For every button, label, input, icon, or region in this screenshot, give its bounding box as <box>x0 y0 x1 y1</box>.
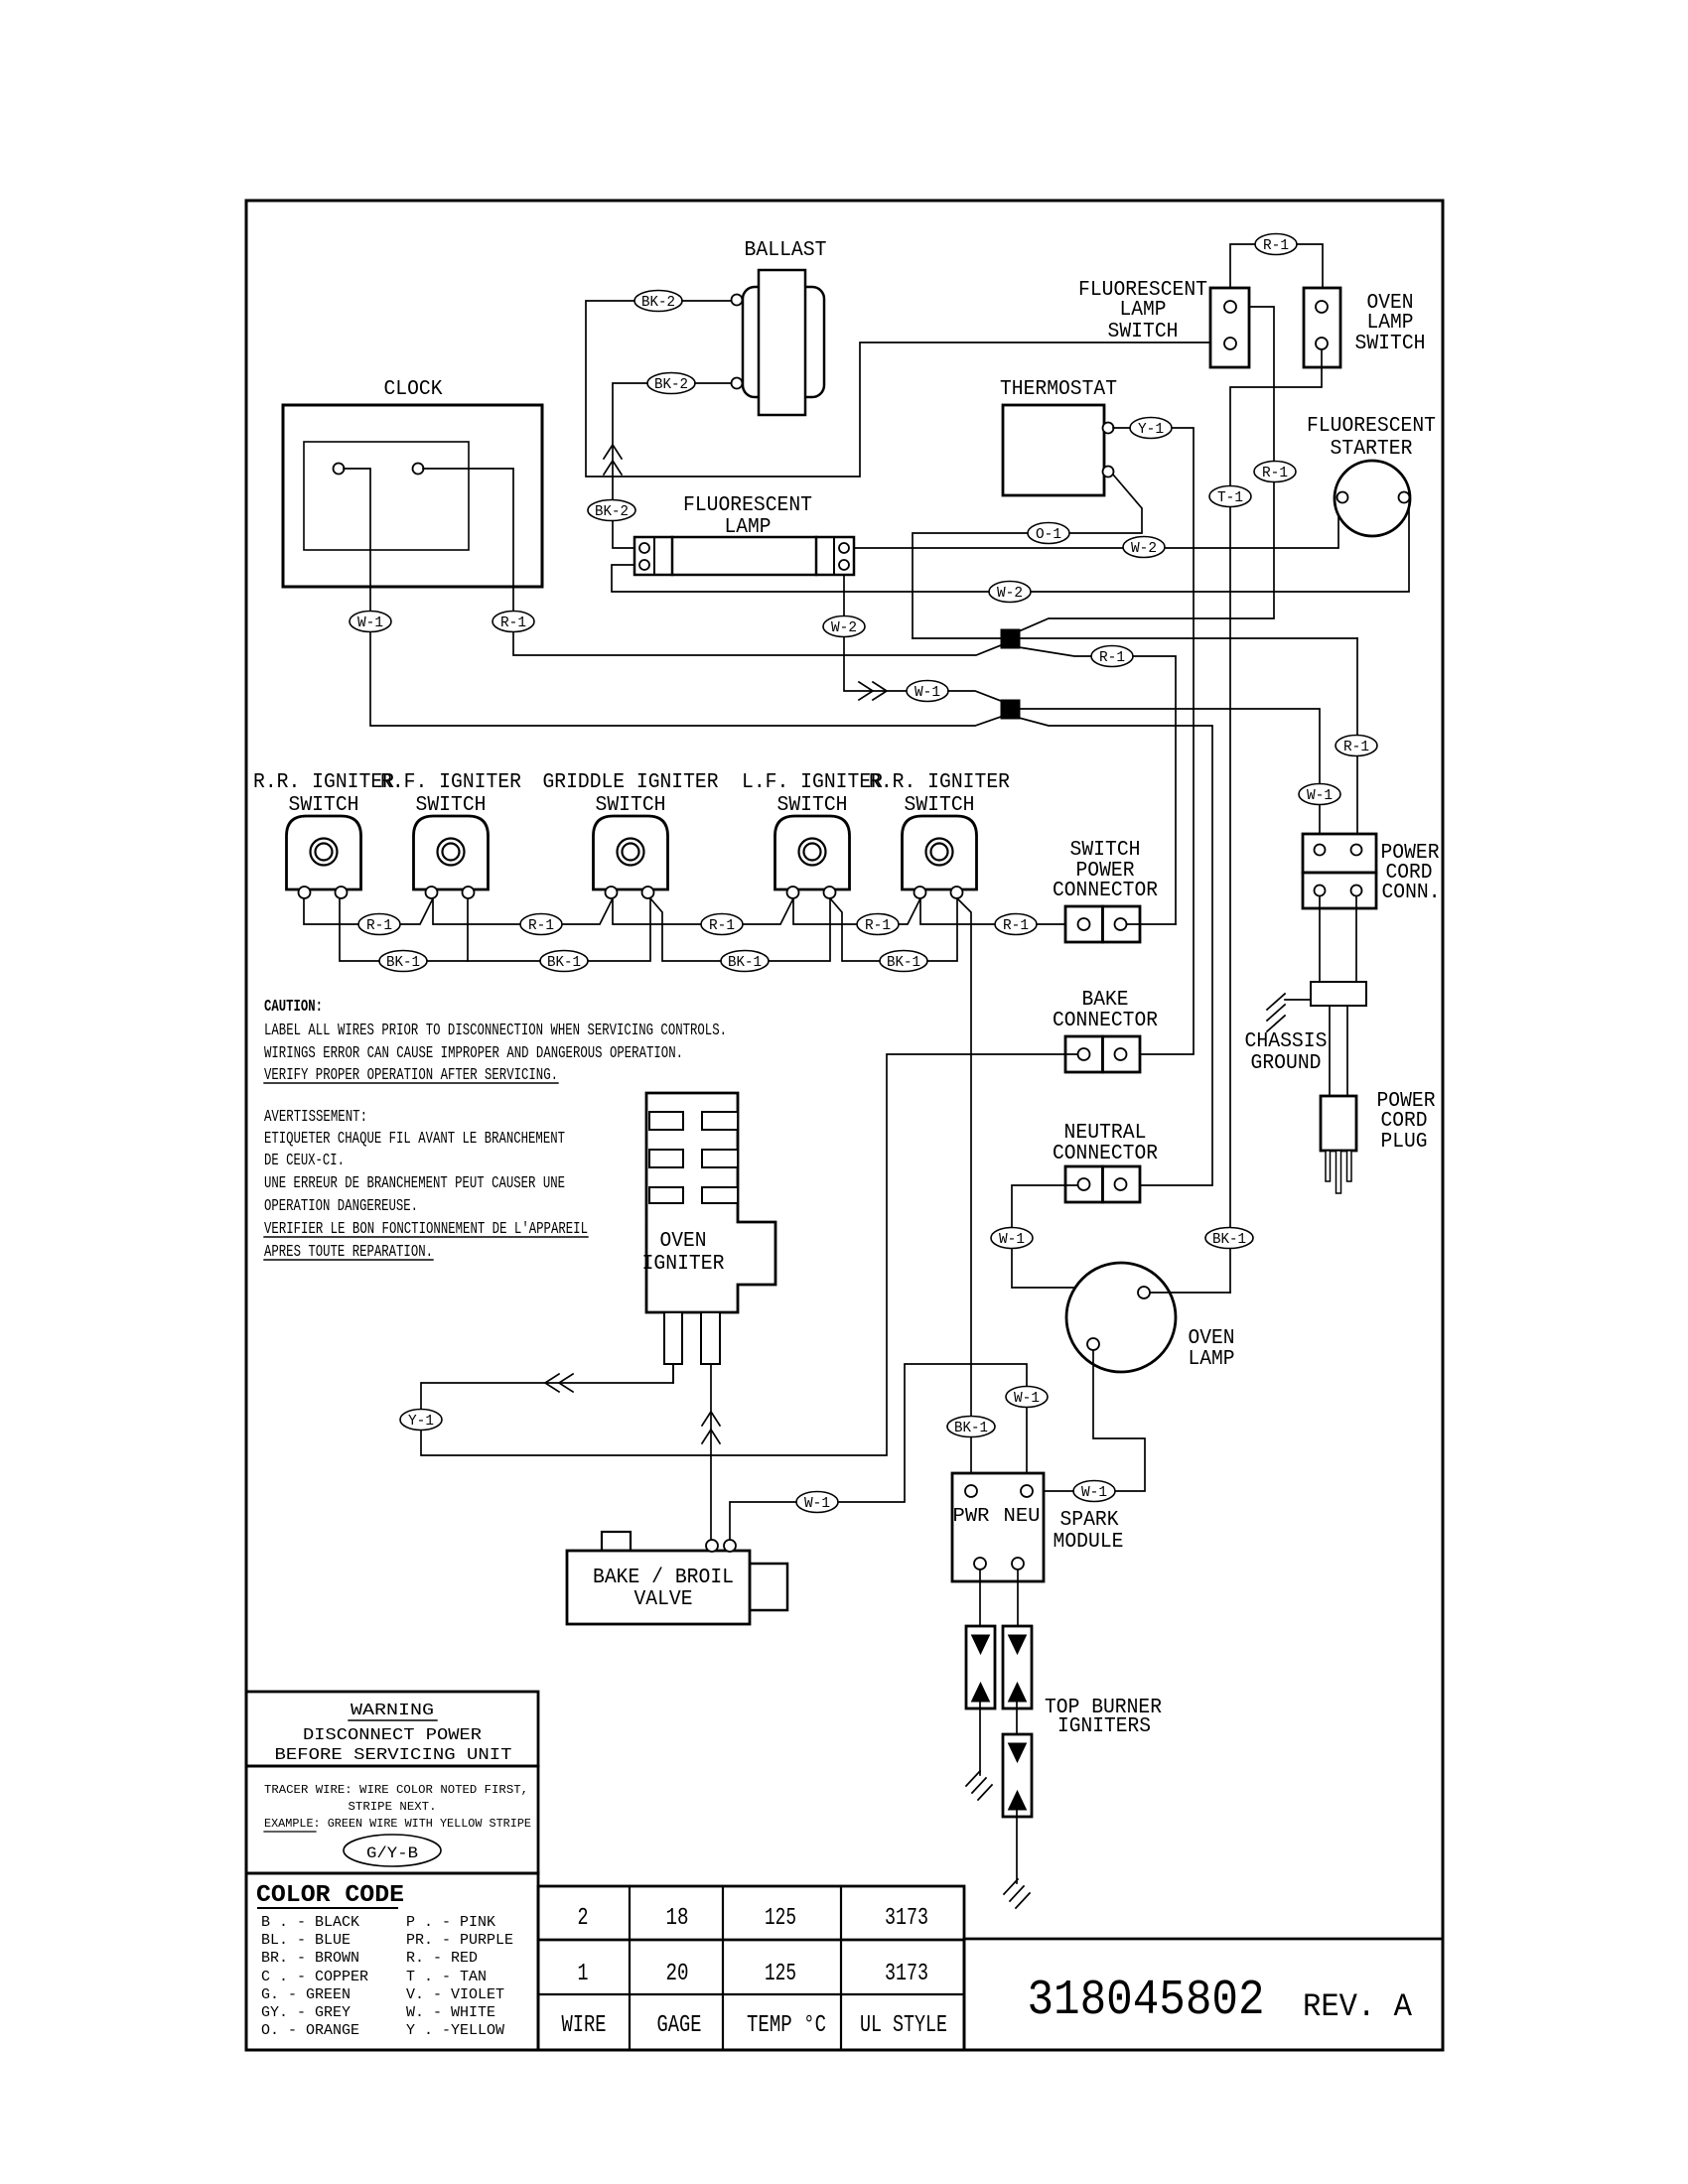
ground symbol igniter 1 <box>966 1771 980 1786</box>
label W-1 neutral drop <box>991 1228 1033 1249</box>
svg-text:R-1: R-1 <box>1099 649 1125 666</box>
spark module terminals <box>965 1485 977 1497</box>
svg-text:R-1: R-1 <box>500 614 526 631</box>
wire W-1 bus junction2 to power cord conn <box>1019 709 1320 850</box>
svg-text:R-1: R-1 <box>1262 465 1288 481</box>
svg-text:R-1: R-1 <box>1343 739 1369 755</box>
spark module body <box>952 1473 1044 1581</box>
wire BK-1 to spark module PWR <box>957 898 971 1485</box>
svg-text:BAKE / BROIL: BAKE / BROIL <box>593 1567 734 1589</box>
svg-text:W-1: W-1 <box>804 1495 830 1512</box>
svg-text:FLUORESCENT: FLUORESCENT <box>683 494 812 517</box>
svg-text:SWITCH: SWITCH <box>1108 321 1179 343</box>
oven lamp terminals <box>1138 1287 1150 1298</box>
power cord connector body <box>1303 834 1376 873</box>
svg-text:T . - TAN: T . - TAN <box>406 1969 487 1985</box>
svg-text:CONNECTOR: CONNECTOR <box>1053 880 1158 902</box>
bake connector body <box>1065 1036 1103 1072</box>
svg-text:SWITCH: SWITCH <box>416 794 487 817</box>
wire bake connector left to Y-1 run <box>421 1054 1077 1455</box>
svg-text:GY. - GREY: GY. - GREY <box>261 2004 351 2021</box>
ballast body <box>743 287 824 397</box>
svg-text:3173: 3173 <box>885 1905 928 1932</box>
label W-2 near starter <box>1123 537 1165 558</box>
svg-text:SWITCH: SWITCH <box>905 794 975 817</box>
label BK-1 spark drop <box>947 1417 995 1437</box>
wire spark PWR to igniter 1 <box>979 1570 981 1644</box>
arrow chevrons right on W-1 wire <box>859 682 873 700</box>
svg-text:SWITCH: SWITCH <box>596 794 666 817</box>
svg-text:Y-1: Y-1 <box>408 1413 434 1430</box>
wire lamp W-2 down to W-1 junction <box>844 570 907 691</box>
svg-text:WARNING: WARNING <box>351 1702 434 1720</box>
svg-text:R. - RED: R. - RED <box>406 1950 478 1967</box>
wire clock R-1 down <box>423 469 1001 655</box>
svg-text:R-1: R-1 <box>1263 237 1289 254</box>
igniter switch S5 body <box>903 816 977 889</box>
svg-text:W-1: W-1 <box>999 1231 1025 1248</box>
power cord connector terminals <box>1315 845 1326 856</box>
ballast terminal 1 <box>732 295 743 306</box>
warning box <box>246 1692 538 1766</box>
svg-text:PR. - PURPLE: PR. - PURPLE <box>406 1932 513 1949</box>
svg-text:DISCONNECT POWER: DISCONNECT POWER <box>303 1726 482 1745</box>
igniter switch S5 knob <box>926 839 953 866</box>
power cord block <box>1311 982 1366 1006</box>
label R-1 power cord drop <box>1336 736 1377 756</box>
wire oven igniter left prong stub <box>672 1364 674 1383</box>
igniter switch S2 knob <box>438 839 465 866</box>
svg-text:UNE ERREUR DE BRANCHEMENT PEUT: UNE ERREUR DE BRANCHEMENT PEUT CAUSER UN… <box>264 1174 565 1193</box>
igniter switch S4 terminals <box>787 887 799 898</box>
wire lamp top-right to starter <box>849 502 1338 548</box>
igniter switch S1 body <box>287 816 361 889</box>
svg-text:V. - VIOLET: V. - VIOLET <box>406 1986 504 2003</box>
tracer wire box <box>246 1766 538 1873</box>
neutral connector body <box>1065 1166 1103 1202</box>
wire oven lamp bottom to spark NEU <box>1093 1350 1145 1491</box>
svg-text:W-1: W-1 <box>1307 787 1333 804</box>
fluorescent lamp switch body <box>1210 288 1249 367</box>
chassis ground symbol <box>1285 999 1311 1001</box>
label Y-1 thermostat <box>1130 418 1172 439</box>
svg-text:WIRINGS ERROR CAN CAUSE IMPROP: WIRINGS ERROR CAN CAUSE IMPROPER AND DAN… <box>264 1044 683 1063</box>
wire BK-2 upper loop <box>586 301 1223 477</box>
oven igniter body <box>646 1093 775 1312</box>
wire spark NEU to igniter 2 <box>1017 1570 1019 1644</box>
wire BK-1 chain <box>340 898 468 961</box>
label R-1 span1 <box>358 914 400 935</box>
svg-text:W-1: W-1 <box>1081 1484 1107 1501</box>
svg-text:W-2: W-2 <box>831 619 857 636</box>
starter terminal left <box>1337 492 1348 503</box>
svg-text:LAMP: LAMP <box>1367 312 1414 335</box>
thermostat terminals <box>1103 423 1114 434</box>
svg-text:IGNITERS: IGNITERS <box>1057 1715 1151 1738</box>
svg-text:STRIPE NEXT.: STRIPE NEXT. <box>349 1800 437 1814</box>
svg-text:2: 2 <box>578 1905 589 1932</box>
label BK-1 on lamp drop <box>1205 1228 1253 1249</box>
svg-text:R.R. IGNITER: R.R. IGNITER <box>253 771 394 794</box>
svg-text:W. - WHITE: W. - WHITE <box>406 2004 495 2021</box>
label W-1 valve <box>796 1492 838 1513</box>
clock pin 2 <box>413 464 424 475</box>
svg-text:GRIDDLE IGNITER: GRIDDLE IGNITER <box>543 771 719 794</box>
svg-text:R.R. IGNITER: R.R. IGNITER <box>869 771 1010 794</box>
label W-1 power cord drop <box>1299 784 1340 805</box>
ground symbol igniter 3 <box>1004 1879 1018 1894</box>
svg-text:Y-1: Y-1 <box>1138 421 1164 438</box>
svg-text:BK-1: BK-1 <box>1212 1231 1246 1248</box>
igniter switch S3 body <box>594 816 668 889</box>
label R-1 arc <box>1255 234 1297 255</box>
svg-text:R-1: R-1 <box>865 917 891 934</box>
wire R-1 chain <box>304 898 1077 924</box>
svg-text:BK-1: BK-1 <box>728 954 762 971</box>
igniter switch S2 body <box>414 816 489 889</box>
svg-text:BL. - BLUE: BL. - BLUE <box>261 1932 351 1949</box>
svg-text:BALLAST: BALLAST <box>745 239 827 262</box>
igniter switch S3 knob <box>618 839 644 866</box>
color code box <box>246 1873 538 2050</box>
label R-1 on fl-switch drop <box>1254 462 1296 482</box>
svg-text:C . - COPPER: C . - COPPER <box>261 1969 368 1985</box>
svg-text:SWITCH: SWITCH <box>289 794 359 817</box>
svg-text:AVERTISSEMENT:: AVERTISSEMENT: <box>264 1108 367 1127</box>
svg-text:THERMOSTAT: THERMOSTAT <box>1000 378 1117 401</box>
svg-text:W-2: W-2 <box>1131 540 1157 557</box>
wire oven-lamp-switch T-1 long drop <box>1230 349 1322 1293</box>
svg-text:B . - BLACK: B . - BLACK <box>261 1914 359 1931</box>
top burner igniter 3 <box>1003 1734 1032 1817</box>
wire junction1 SE to switch power connector <box>1019 647 1091 656</box>
thermostat body <box>1003 405 1104 495</box>
svg-text:GAGE: GAGE <box>657 2012 702 2039</box>
svg-text:W-1: W-1 <box>357 614 383 631</box>
wire oven lamp top terminal to T-1 riser <box>1150 1292 1230 1294</box>
svg-text:DE CEUX-CI.: DE CEUX-CI. <box>264 1152 345 1170</box>
label R-1 span3 <box>701 914 743 935</box>
svg-text:R.F. IGNITER: R.F. IGNITER <box>380 771 521 794</box>
svg-text:R-1: R-1 <box>366 917 392 934</box>
oven lamp switch terminals <box>1316 301 1328 313</box>
svg-text:CONNECTOR: CONNECTOR <box>1053 1010 1158 1032</box>
svg-text:OVEN: OVEN <box>1189 1327 1235 1350</box>
svg-text:L.F. IGNITER: L.F. IGNITER <box>742 771 883 794</box>
valve terminals <box>706 1540 718 1552</box>
svg-text:BK-1: BK-1 <box>386 954 420 971</box>
label BK-2 mid <box>588 500 635 521</box>
svg-text:GROUND: GROUND <box>1251 1052 1322 1075</box>
wire BK-2 lower stub <box>695 382 732 384</box>
igniter switch S4 body <box>775 816 850 889</box>
wire BK-2 upper stub <box>682 300 732 302</box>
svg-text:P . - PINK: P . - PINK <box>406 1914 495 1931</box>
label W-2 below lamp <box>823 616 865 637</box>
svg-text:OPERATION DANGEREUSE.: OPERATION DANGEREUSE. <box>264 1197 418 1216</box>
oven lamp switch body <box>1304 288 1340 367</box>
label R-1 span2 <box>520 914 562 935</box>
svg-text:IGNITER: IGNITER <box>642 1253 725 1276</box>
svg-text:O-1: O-1 <box>1036 526 1061 543</box>
bake broil valve body <box>602 1532 631 1551</box>
label R-1 junction SE <box>1091 646 1133 667</box>
node junction square 2 <box>1001 700 1020 719</box>
wire valve right terminal W-1 run <box>730 1364 1027 1540</box>
wire power cord conn to plug block <box>1319 896 1321 982</box>
label R-1 clock <box>492 612 534 632</box>
igniter switch S5 terminals <box>914 887 926 898</box>
svg-text:NEU: NEU <box>1004 1505 1041 1527</box>
svg-text:EXAMPLE: GREEN WIRE WITH YELLO: EXAMPLE: GREEN WIRE WITH YELLOW STRIPE <box>264 1817 531 1831</box>
wire junction2 SE to neutral connector <box>1019 718 1212 1185</box>
wire block to plug <box>1329 1006 1331 1096</box>
svg-text:1: 1 <box>578 1961 589 1987</box>
svg-text:BK-2: BK-2 <box>595 503 629 520</box>
svg-text:APRES TOUTE REPARATION.: APRES TOUTE REPARATION. <box>264 1243 433 1262</box>
svg-text:125: 125 <box>765 1905 796 1932</box>
svg-text:UL STYLE: UL STYLE <box>860 2012 947 2039</box>
wire W-1 into junction <box>948 691 1001 701</box>
svg-text:LAMP: LAMP <box>725 516 772 539</box>
svg-text:BK-1: BK-1 <box>887 954 920 971</box>
switch power connector body <box>1065 906 1103 942</box>
svg-text:STARTER: STARTER <box>1331 438 1413 461</box>
svg-text:W-2: W-2 <box>997 585 1023 602</box>
svg-text:FLUORESCENT: FLUORESCENT <box>1307 415 1436 438</box>
oven igniter slots <box>649 1112 683 1130</box>
svg-text:SWITCH: SWITCH <box>1070 839 1141 862</box>
svg-text:BK-1: BK-1 <box>547 954 581 971</box>
svg-text:LAMP: LAMP <box>1189 1348 1235 1371</box>
wire BK-2 lower to lamp <box>613 383 650 548</box>
wire switch power connector to R-1 riser <box>1127 923 1176 925</box>
svg-text:125: 125 <box>765 1961 796 1987</box>
svg-text:NEUTRAL: NEUTRAL <box>1064 1122 1147 1145</box>
oven igniter prongs <box>664 1312 682 1364</box>
label BK-1 span2 <box>540 951 588 972</box>
igniter switch S2 terminals <box>426 887 438 898</box>
svg-text:T-1: T-1 <box>1217 489 1243 506</box>
svg-text:CORD: CORD <box>1381 1110 1428 1133</box>
wire R-1 arc between lamp switches <box>1230 244 1323 288</box>
arrow chevrons on BK-2 wire <box>604 445 622 459</box>
igniter switch S4 knob <box>799 839 826 866</box>
node junction square 1 <box>1001 629 1020 648</box>
svg-text:18: 18 <box>666 1905 689 1932</box>
fluorescent lamp body <box>634 537 854 575</box>
starter terminal right <box>1399 492 1410 503</box>
fl switch terminals <box>1224 301 1236 313</box>
svg-text:CHASSIS: CHASSIS <box>1245 1030 1328 1053</box>
svg-text:LABEL ALL WIRES PRIOR TO DISCO: LABEL ALL WIRES PRIOR TO DISCONNECTION W… <box>264 1022 727 1040</box>
oven lamp body <box>1066 1263 1176 1372</box>
svg-text:SPARK: SPARK <box>1060 1509 1119 1532</box>
wire R-1 bus through junction 1 <box>913 637 1357 639</box>
svg-text:CONNECTOR: CONNECTOR <box>1053 1143 1158 1165</box>
title block box <box>964 1938 1443 1941</box>
svg-text:LAMP: LAMP <box>1120 299 1167 322</box>
svg-text:MODULE: MODULE <box>1054 1531 1124 1554</box>
label W-1 below lamp <box>907 681 948 702</box>
svg-text:Y . -YELLOW: Y . -YELLOW <box>406 2022 504 2039</box>
svg-text:CLOCK: CLOCK <box>384 378 443 401</box>
drawing border frame <box>246 201 1443 2050</box>
label Y-1 lower <box>400 1410 442 1431</box>
wire R-1 junction1 to power cord conn <box>1356 638 1358 850</box>
label R-1 span5 <box>995 914 1037 935</box>
svg-text:PLUG: PLUG <box>1381 1131 1428 1154</box>
wire FL switch top to R-1 junction <box>1019 307 1274 631</box>
wire igniter1 to ground <box>979 1702 981 1775</box>
svg-text:OVEN: OVEN <box>660 1230 707 1253</box>
clock pin 1 <box>334 464 345 475</box>
svg-text:R-1: R-1 <box>1003 917 1029 934</box>
svg-text:CAUTION:: CAUTION: <box>264 998 323 1017</box>
svg-text:SWITCH: SWITCH <box>777 794 848 817</box>
top burner igniter 1 <box>966 1626 995 1708</box>
igniter switch S3 terminals <box>606 887 618 898</box>
wire oven igniter right prong to valve <box>710 1364 712 1540</box>
label BK-1 span3 <box>721 951 769 972</box>
wire lamp W-2 bottom-left run <box>612 502 1409 592</box>
svg-text:BK-2: BK-2 <box>641 294 675 311</box>
lamp terminal circles <box>639 543 649 553</box>
svg-text:VERIFIER LE BON FONCTIONNEMENT: VERIFIER LE BON FONCTIONNEMENT DE L'APPA… <box>264 1220 588 1239</box>
wire neutral connector left to oven lamp <box>1012 1185 1093 1339</box>
svg-text:TEMP °C: TEMP °C <box>747 2012 826 2039</box>
svg-text:R-1: R-1 <box>709 917 735 934</box>
svg-text:COLOR CODE: COLOR CODE <box>256 1882 404 1909</box>
svg-text:O. - ORANGE: O. - ORANGE <box>261 2022 359 2039</box>
svg-text:VERIFY PROPER OPERATION AFTER: VERIFY PROPER OPERATION AFTER SERVICING. <box>264 1066 558 1085</box>
svg-text:BK-2: BK-2 <box>654 376 688 393</box>
svg-text:BR. - BROWN: BR. - BROWN <box>261 1950 359 1967</box>
ballast terminal 2 <box>732 378 743 389</box>
svg-text:R-1: R-1 <box>528 917 554 934</box>
svg-text:WIRE: WIRE <box>562 2012 607 2039</box>
wire clock W-1 down <box>344 469 1001 726</box>
clock body <box>283 405 542 587</box>
svg-text:BEFORE SERVICING UNIT: BEFORE SERVICING UNIT <box>275 1746 512 1765</box>
svg-text:G/Y-B: G/Y-B <box>366 1844 418 1862</box>
power cord plug body <box>1321 1096 1356 1151</box>
svg-text:ETIQUETER CHAQUE FIL AVANT LE: ETIQUETER CHAQUE FIL AVANT LE BRANCHEMEN… <box>264 1130 565 1149</box>
svg-text:20: 20 <box>666 1961 689 1987</box>
label BK-2 lower <box>647 373 695 394</box>
svg-text:PWR: PWR <box>953 1505 990 1527</box>
label O-1 <box>1028 523 1069 544</box>
arrow chevrons left on Y-1 wire <box>545 1374 559 1392</box>
wire Y-1 thermostat to bake connector <box>1113 427 1130 429</box>
wire table grid <box>538 1886 964 2050</box>
arrow chevrons up on valve wire <box>702 1412 720 1426</box>
svg-text:TRACER WIRE: WIRE COLOR NOTED: TRACER WIRE: WIRE COLOR NOTED FIRST, <box>264 1783 528 1797</box>
label W-2 on long run <box>989 582 1031 603</box>
wire igniter3 to ground <box>1016 1810 1018 1883</box>
svg-text:3173: 3173 <box>885 1961 928 1987</box>
svg-text:REV. A: REV. A <box>1303 1988 1413 2025</box>
fluorescent starter body <box>1335 461 1410 536</box>
wire igniter2 to igniter3 <box>1016 1702 1018 1752</box>
wire O-1 thermostat to junction <box>1069 475 1142 533</box>
svg-text:CONN.: CONN. <box>1382 882 1441 904</box>
label BK-1 span4 <box>880 951 927 972</box>
svg-text:W-1: W-1 <box>914 684 940 701</box>
svg-text:W-1: W-1 <box>1014 1390 1040 1407</box>
igniter switch S1 knob <box>311 839 338 866</box>
label BK-2 upper <box>634 291 682 312</box>
svg-text:BK-1: BK-1 <box>954 1420 988 1436</box>
igniter switch S1 terminals <box>299 887 311 898</box>
wire W-1 stub into NEU <box>1033 1490 1073 1492</box>
label W-1 spark NEU drop <box>1006 1387 1048 1408</box>
top burner igniter 2 <box>1003 1626 1032 1708</box>
svg-text:G. - GREEN: G. - GREEN <box>261 1986 351 2003</box>
svg-text:SWITCH: SWITCH <box>1355 333 1426 355</box>
power cord plug prongs <box>1326 1151 1331 1181</box>
svg-text:BAKE: BAKE <box>1082 989 1129 1012</box>
label R-1 span4 <box>857 914 899 935</box>
label W-1 oven lamp <box>1073 1481 1115 1502</box>
svg-text:318045802: 318045802 <box>1028 1973 1265 2029</box>
svg-text:VALVE: VALVE <box>634 1588 693 1611</box>
label BK-1 span1 <box>379 951 427 972</box>
tracer example ellipse G/Y-B <box>344 1835 441 1866</box>
label W-1 clock <box>350 612 391 632</box>
label T-1 <box>1209 486 1251 507</box>
